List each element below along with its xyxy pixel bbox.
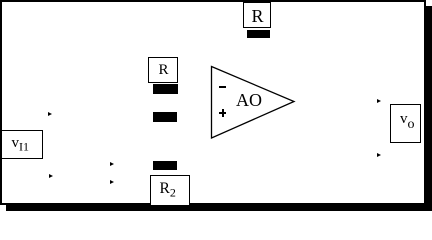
wire arrowhead f [377, 153, 381, 157]
resistor R2 label box [150, 175, 190, 207]
wire arrowhead c [110, 162, 114, 166]
resistor R input label text [159, 63, 169, 78]
wire arrowhead b [49, 174, 53, 178]
input label vI1 [12, 136, 30, 153]
output box vo [390, 104, 421, 143]
border frame right [424, 0, 426, 205]
resistor R feedback body [247, 30, 270, 38]
resistor R input body [153, 84, 178, 94]
input source box vI1 [1, 130, 43, 160]
op-amp AO triangle [210, 65, 296, 140]
resistor R2 body bar [153, 161, 177, 170]
op-amp label AO [236, 91, 262, 109]
border frame left [0, 0, 2, 205]
wire arrowhead e (op-amp output) [377, 99, 381, 103]
border shadow right [426, 6, 432, 211]
border shadow bottom [6, 205, 432, 211]
wire arrowhead a (vI1 to node) [48, 112, 52, 116]
border frame bottom [0, 203, 426, 205]
resistor R feedback label box [243, 2, 271, 28]
output label vo [400, 112, 415, 132]
border frame top [0, 0, 426, 2]
op-amp non-inverting input plus sign [219, 112, 227, 114]
resistor body bar 2 [153, 112, 177, 122]
wire arrowhead d [110, 180, 114, 184]
resistor R input label box [148, 57, 178, 83]
op-amp inverting input minus sign [219, 86, 227, 88]
resistor R2 label text [160, 181, 176, 199]
resistor R feedback label text [252, 7, 264, 25]
